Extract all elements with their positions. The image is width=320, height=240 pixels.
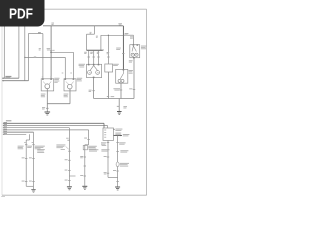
label near K2 — [130, 35, 133, 38]
splice bar — [87, 49, 103, 51]
label on bus right — [118, 22, 122, 25]
relay pin drops — [88, 50, 90, 64]
label left of relay K1 — [79, 63, 85, 66]
pin ticks — [25, 143, 27, 146]
cross feed from bus-end drop — [101, 34, 124, 36]
PDF badge — [0, 0, 45, 27]
label left of riser A — [39, 47, 41, 50]
label left wire1 — [18, 145, 24, 148]
wire below connector — [84, 145, 86, 186]
inline connector C3 — [116, 162, 119, 167]
internal pin texts — [104, 129, 106, 132]
drop L4 wire — [88, 130, 90, 145]
merge wire motors — [47, 103, 70, 105]
tick — [92, 89, 94, 92]
drops L1 L2 into box C — [103, 123, 105, 128]
connector ticks on relay wires — [88, 56, 90, 59]
join to right wire — [108, 176, 118, 178]
ground label — [123, 105, 127, 108]
pin ticks — [133, 44, 135, 46]
label left of fan1 wire — [41, 93, 46, 96]
labels row y149 — [89, 148, 98, 151]
tick on drop — [122, 52, 124, 55]
label right of fan1 — [54, 77, 59, 80]
drop L3 wire — [68, 128, 70, 187]
arrow w2 — [2, 80, 4, 82]
wire labels — [84, 51, 87, 54]
label between risers — [47, 47, 51, 50]
wire branch to K2 — [123, 34, 133, 36]
wire riser to fan1 — [28, 34, 30, 81]
bus L3 — [3, 127, 69, 129]
ground stem — [118, 99, 120, 112]
label right — [119, 141, 125, 144]
pin ticks fan1 — [42, 78, 44, 80]
motor symbol M1 — [45, 84, 50, 89]
connector tick fan1 wire — [46, 107, 49, 110]
page border top — [44, 8, 147, 10]
motor symbol M2 — [68, 84, 73, 89]
tick — [67, 139, 70, 142]
label with arrow — [56, 144, 65, 147]
label above w1 — [5, 76, 11, 77]
resistor box wire — [107, 35, 109, 64]
bus L2 — [3, 125, 108, 127]
label on jog — [38, 32, 41, 33]
resistor R1 box — [105, 64, 113, 72]
label left — [101, 141, 106, 144]
bus right end drop — [122, 26, 124, 70]
bus labels left — [6, 120, 11, 121]
merge wire right section — [94, 98, 134, 100]
label left of drop — [116, 47, 121, 50]
relay K1 internals — [90, 66, 94, 71]
ground G6 — [115, 187, 120, 188]
ground G5 — [82, 186, 87, 187]
ground G3 — [33, 186, 35, 189]
wire fan1 right pin drop from bus — [50, 26, 52, 79]
drop L6 wire — [29, 134, 31, 140]
wire box C bottom pin — [107, 140, 109, 177]
wire fusebox B — [24, 27, 26, 81]
label above dark wire — [115, 132, 121, 135]
fan motor M1 box — [41, 79, 54, 91]
label right of fan2 — [77, 77, 82, 80]
label right of box B — [129, 69, 133, 72]
connector tick on branch — [34, 56, 36, 59]
svg-text:PDF: PDF — [9, 7, 33, 23]
page border left — [1, 9, 3, 195]
page border bottom — [2, 194, 147, 196]
condenser fan relay K2 box — [130, 45, 140, 58]
node bus B+ top horizontal — [43, 25, 123, 27]
wire R1 bottom — [107, 72, 109, 99]
ground G2 — [117, 111, 122, 112]
bus L4 — [3, 129, 89, 131]
ticks — [84, 156, 86, 159]
wire w2 horizontal — [2, 80, 28, 82]
ground G1 — [45, 112, 51, 113]
fan motor M2 box — [64, 79, 76, 91]
label left tick — [42, 106, 45, 109]
pin2 dark wire right — [114, 134, 123, 136]
ground G4 — [67, 186, 72, 187]
label on bus — [51, 22, 54, 25]
jog left — [85, 144, 89, 146]
label right of dark wire — [123, 133, 130, 136]
label right of resistor R1 — [113, 63, 119, 66]
bus L1 — [3, 122, 104, 124]
pin ticks fan2 — [65, 78, 67, 80]
footer text — [1, 195, 5, 198]
ticks on L3 wire — [68, 150, 70, 153]
ecm connector C1 box — [103, 128, 114, 140]
internals — [132, 46, 133, 52]
bus arrows — [3, 123, 5, 125]
arrow w1 — [2, 77, 4, 79]
wire K2 bottom — [133, 58, 135, 99]
pin number texts fan pins — [62, 72, 64, 75]
wire M2 down — [69, 89, 71, 104]
join bottom — [26, 185, 33, 187]
wire K1 bottom — [93, 78, 95, 99]
wire fusebox A — [18, 27, 20, 79]
ticks on box C wire — [107, 156, 109, 159]
wire from dark line down — [117, 135, 119, 186]
page border right — [146, 9, 148, 195]
bus L6 — [3, 133, 26, 135]
label right wire1 — [27, 145, 32, 148]
label right wire2 — [35, 145, 45, 148]
junction dot — [50, 52, 52, 54]
pin ticks — [88, 64, 90, 66]
drop L5 wire — [33, 132, 35, 186]
label left of fan2 wire — [64, 93, 69, 96]
wire branch to fan2 left pin — [25, 56, 66, 58]
wire fan1 left pin drop — [42, 34, 44, 79]
label right of K2 — [141, 45, 146, 48]
ticks mid — [25, 157, 27, 160]
wire jog top — [28, 33, 43, 35]
wire branch to fan2 right pin — [51, 51, 73, 53]
wire under badge left — [3, 27, 5, 79]
wire box B bottom — [120, 83, 122, 98]
internals circles — [118, 79, 121, 82]
a/c switch box B — [116, 69, 128, 83]
right pin tick 1 — [113, 128, 115, 131]
junction dot — [24, 57, 25, 58]
stub right — [69, 175, 75, 177]
pin1 label — [115, 128, 122, 131]
label b6 — [37, 148, 45, 151]
bus drop to relay jog — [93, 26, 95, 34]
pin number marks fan1 — [42, 76, 43, 79]
wire w1 horizontal — [2, 77, 19, 79]
inline connector C2 — [83, 145, 87, 149]
fan relay K1 box — [87, 64, 102, 77]
tick — [117, 105, 119, 108]
label right of junction — [125, 32, 129, 35]
wire M1 to ground — [46, 89, 48, 112]
tick and label right on riser — [50, 49, 52, 52]
bus L5 — [3, 131, 34, 133]
pin tick top — [123, 69, 125, 71]
